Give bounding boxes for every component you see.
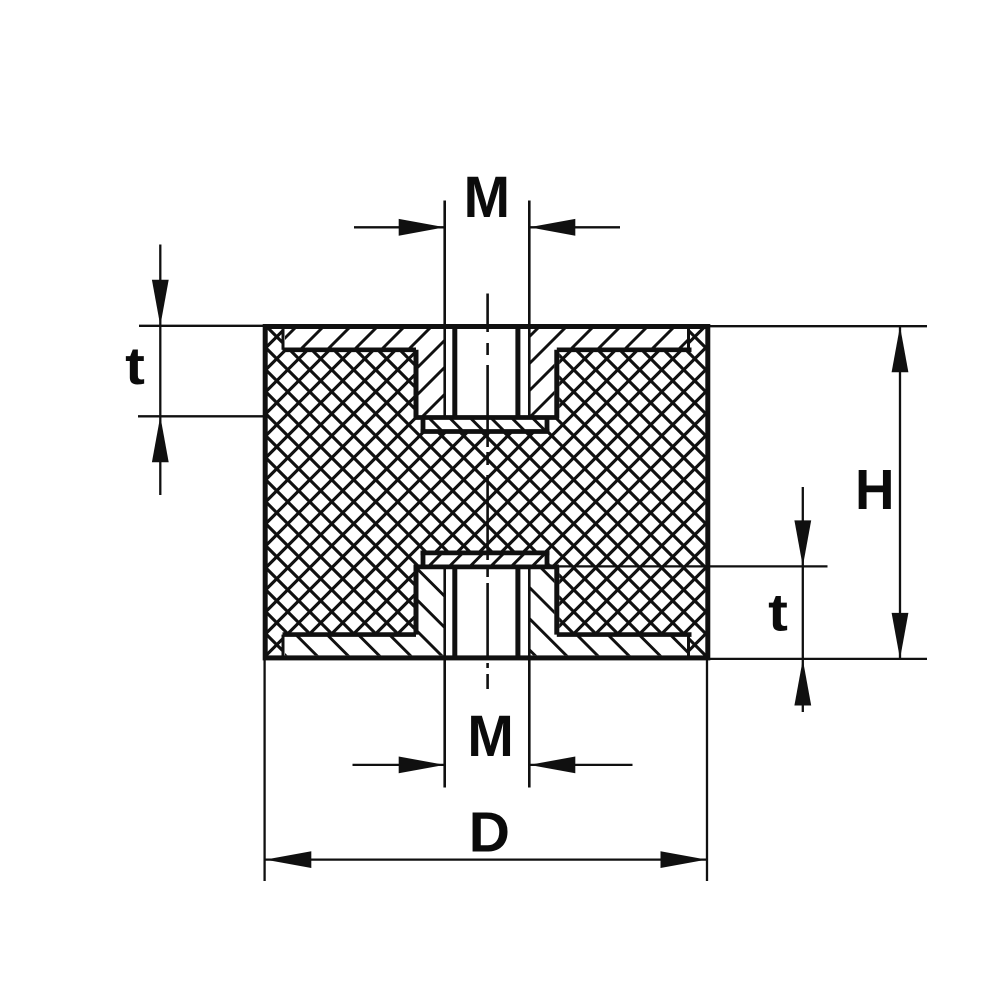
- svg-text:M: M: [467, 705, 513, 769]
- svg-text:M: M: [464, 166, 510, 230]
- svg-text:H: H: [855, 457, 895, 521]
- svg-text:D: D: [469, 801, 510, 865]
- svg-text:t: t: [768, 582, 788, 641]
- svg-text:t: t: [125, 336, 145, 395]
